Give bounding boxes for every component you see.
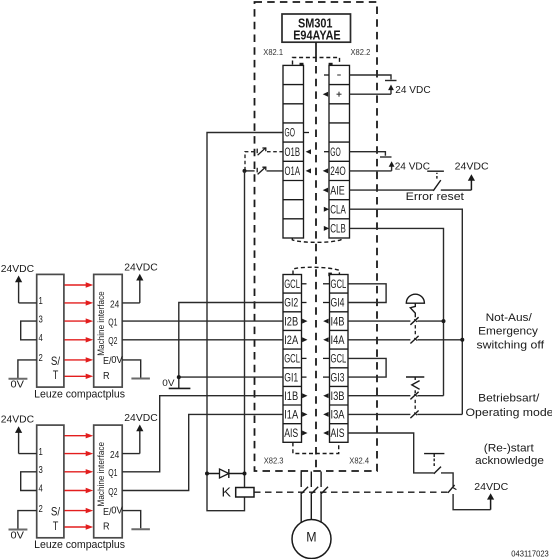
svg-text:GI4: GI4 <box>331 298 345 310</box>
svg-text:GCL: GCL <box>331 354 347 366</box>
svg-text:24VDC: 24VDC <box>455 161 489 173</box>
svg-text:GI2: GI2 <box>284 298 298 310</box>
svg-text:acknowledge: acknowledge <box>475 455 544 467</box>
Leuze unit 1 machine interface box <box>94 274 123 387</box>
svg-text:Error reset: Error reset <box>406 191 465 203</box>
direction tick X82.3 GCL row5 <box>302 357 307 359</box>
ground pin2 unit2 <box>9 529 28 531</box>
direction arrow X82.2 plus <box>323 92 328 97</box>
svg-text:1: 1 <box>39 446 43 458</box>
terminal strip X82.1 <box>283 65 304 238</box>
svg-text:T: T <box>53 519 59 533</box>
svg-text:GCL: GCL <box>284 279 300 291</box>
svg-text:24: 24 <box>110 449 119 461</box>
junction CLB-I4B <box>442 319 446 323</box>
svg-text:I1B: I1B <box>284 391 298 403</box>
direction tick X82.1 GO <box>304 132 310 134</box>
wire pin3-pin4 link unit1 <box>21 321 37 340</box>
arrow 24VDC unit1 right <box>136 274 143 303</box>
svg-text:Q1: Q1 <box>108 317 117 329</box>
direction arrow X82.2 AIE <box>323 188 328 193</box>
junction CLA-I4A <box>460 338 464 342</box>
svg-text:4: 4 <box>39 332 43 344</box>
svg-text:CLB: CLB <box>330 224 346 236</box>
terminal strip X82.3 <box>283 275 302 443</box>
red links unit2 <box>65 436 88 527</box>
direction arrow X82.2 CLB <box>324 226 329 231</box>
direction arrow X82.3 AIS <box>302 431 307 436</box>
ground 0V pin unit2 <box>131 528 150 530</box>
contact O1B dashed wire <box>267 151 284 153</box>
svg-text:24VDC: 24VDC <box>1 263 35 275</box>
svg-text:24 VDC: 24 VDC <box>395 161 431 173</box>
svg-text:3: 3 <box>39 313 43 325</box>
svg-text:GI3: GI3 <box>331 372 345 384</box>
mode switch actuator <box>406 377 424 394</box>
svg-text:24: 24 <box>110 298 119 310</box>
linkage K dashed <box>254 491 448 493</box>
red links unit1 <box>65 285 88 376</box>
junction 0V <box>177 375 181 379</box>
wire minus termination <box>350 75 392 80</box>
X82.2 pin plus <box>337 92 342 97</box>
svg-text:0V: 0V <box>111 355 123 366</box>
svg-text:3: 3 <box>39 464 43 476</box>
Leuze unit 1 sensor box S/T <box>37 274 64 387</box>
svg-text:24VDC: 24VDC <box>124 261 158 273</box>
svg-text:I3B: I3B <box>331 391 345 403</box>
svg-text:Not-Aus/: Not-Aus/ <box>486 312 533 324</box>
wire pin24 unit2 <box>122 453 140 455</box>
svg-text:GCL: GCL <box>284 354 300 366</box>
direction arrow X82.3 I2A <box>302 337 307 342</box>
svg-text:0V: 0V <box>162 378 175 389</box>
contact I3A wire <box>348 413 462 415</box>
module SM301 outer dashed boundary <box>255 2 378 471</box>
svg-text:GO: GO <box>330 147 341 159</box>
arrow 24VDC at 24O <box>389 161 395 171</box>
svg-text:O1A: O1A <box>285 166 301 178</box>
svg-text:R: R <box>103 521 110 533</box>
svg-text:R: R <box>103 370 110 382</box>
svg-text:24O: 24O <box>330 166 346 178</box>
direction tick X82.4 GCL row1 <box>323 283 330 285</box>
wire Q1 unit2 to I1B <box>122 396 283 472</box>
svg-text:CLA: CLA <box>330 204 346 216</box>
wire AIS acknowledge <box>348 433 434 473</box>
direction arrow X82.3 I1A <box>302 412 307 417</box>
arrow 24VDC acknowledge <box>487 493 494 510</box>
svg-text:Machine interface: Machine interface <box>96 291 106 356</box>
relay coil K <box>236 488 254 498</box>
svg-text:GCL: GCL <box>331 279 347 291</box>
svg-text:Emergency: Emergency <box>478 326 538 338</box>
svg-text:2: 2 <box>39 352 43 364</box>
wire to 24VDC acknowledge <box>453 494 491 510</box>
svg-text:X82.2: X82.2 <box>351 47 371 57</box>
contact I3B blade <box>410 392 418 400</box>
stem from label box <box>315 42 317 62</box>
ground 0V node <box>169 387 191 389</box>
Leuze unit 2 sensor box S/T <box>37 425 64 538</box>
wire GCL-GI3 loop <box>348 358 386 377</box>
svg-text:X82.1: X82.1 <box>263 47 283 57</box>
arrow 24VDC unit2 left <box>15 426 22 453</box>
svg-text:AIE: AIE <box>330 185 345 197</box>
svg-text:S/: S/ <box>51 354 61 368</box>
direction arrow X82.3 I1B <box>302 393 307 398</box>
svg-text:S/: S/ <box>51 505 61 519</box>
direction tick X82.3 GI2 row2 <box>302 302 307 304</box>
corner mark X82.1 <box>300 63 304 67</box>
wire AIE error reset <box>350 189 434 191</box>
direction tick X82.3 GCL row1 <box>302 283 307 285</box>
svg-text:I2A: I2A <box>284 335 298 347</box>
terminal strip X82.4 <box>330 275 349 443</box>
wire pin24 unit1 <box>122 302 140 304</box>
wire pin1 unit1 <box>19 302 37 304</box>
svg-text:X82.4: X82.4 <box>349 455 369 465</box>
svg-text:24VDC: 24VDC <box>124 412 158 424</box>
svg-text:T: T <box>53 368 59 382</box>
svg-text:24 VDC: 24 VDC <box>395 84 431 96</box>
dashed plug bracket above X82.1/X82.2 <box>293 58 340 65</box>
pushbutton restart contact <box>434 467 441 474</box>
wire 24O to 24VDC <box>350 170 392 172</box>
direction tick X82.3 GI1 row6 <box>302 376 307 378</box>
svg-text:X82.3: X82.3 <box>264 455 284 465</box>
wire GO termination <box>350 152 386 156</box>
svg-text:043117023: 043117023 <box>511 549 549 559</box>
svg-text:M: M <box>306 529 316 545</box>
svg-text:0V: 0V <box>111 506 123 517</box>
wire Q2 unit1 to I2A <box>122 339 283 341</box>
label box SM301 / E94AYAE <box>282 14 351 43</box>
direction tick X82.4 GCL row5 <box>323 357 330 359</box>
wire GO X82.1 to relay K <box>207 133 283 511</box>
emergency stop button head <box>406 294 424 303</box>
direction tick X82.2 minus <box>324 74 329 76</box>
wire 0V node to GI1 <box>179 376 283 378</box>
svg-text:Leuze compactplus: Leuze compactplus <box>34 389 125 401</box>
wire pin3-pin4 link unit2 <box>21 472 37 491</box>
corner mark X82.4 <box>328 273 332 277</box>
svg-text:AIS: AIS <box>284 428 298 440</box>
contact I4A wire <box>348 339 462 341</box>
svg-text:0V: 0V <box>11 379 24 391</box>
svg-text:AIS: AIS <box>331 428 345 440</box>
svg-text:Q2: Q2 <box>108 335 117 347</box>
wire CLA <box>350 209 463 414</box>
contact I4A blade <box>410 336 418 344</box>
svg-text:I3A: I3A <box>331 410 345 422</box>
direction tick X82.4 GI3 row6 <box>323 376 330 378</box>
direction arrow X82.2 24O <box>323 168 328 173</box>
svg-text:K: K <box>222 484 232 499</box>
direction arrow X82.4 I3A <box>323 412 328 417</box>
svg-text:I4B: I4B <box>331 316 345 328</box>
K feedback contact blade <box>448 485 455 493</box>
direction arrow X82.1 O1B <box>306 149 311 154</box>
wire Q2 unit2 to I1A <box>122 414 283 490</box>
svg-text:Betriebsart/: Betriebsart/ <box>478 393 540 405</box>
svg-text:GI1: GI1 <box>284 372 298 384</box>
wire 0V node to GI2 <box>179 303 283 389</box>
arrow 24VDC unit2 right <box>136 425 143 454</box>
wire pin2 ground unit2 <box>18 511 37 529</box>
motor M <box>292 520 331 559</box>
direction arrow X82.2 CLA <box>324 207 329 212</box>
contact I3B wire <box>348 395 444 397</box>
wire 0V pin unit2 <box>122 511 141 529</box>
direction arrow X82.4 I4A <box>323 337 328 342</box>
svg-text:24VDC: 24VDC <box>1 414 35 426</box>
wire 0V pin unit1 <box>122 360 141 378</box>
contact I4B blade <box>410 317 418 325</box>
svg-text:Q2: Q2 <box>108 486 117 498</box>
diode freewheel <box>207 469 245 478</box>
wire CLB <box>350 228 444 395</box>
phase line 1 contact <box>301 472 309 524</box>
phase line 2 contact <box>311 472 319 524</box>
svg-text:I1A: I1A <box>284 410 298 422</box>
wire plus to 24VDC <box>350 93 392 95</box>
dashed plug bracket below X82.3/X82.4 <box>293 442 339 453</box>
contact O1A symbol <box>257 167 266 175</box>
Leuze unit 2 machine interface box <box>94 425 123 538</box>
wire O1A down to relay <box>244 171 246 488</box>
svg-text:GO: GO <box>285 128 296 140</box>
dashed plug bracket below X82.1/X82.2 <box>292 238 341 242</box>
contact O1B symbol <box>257 148 266 156</box>
wire pin1 unit2 <box>19 453 37 455</box>
direction tick X82.2 GO <box>324 151 329 153</box>
svg-text:O1B: O1B <box>285 147 301 159</box>
wire GCL-GI4 loop <box>348 284 386 303</box>
svg-text:1: 1 <box>39 295 43 307</box>
svg-text:switching off: switching off <box>477 339 545 351</box>
svg-text:2: 2 <box>39 503 43 515</box>
direction arrow X82.4 I4B <box>323 319 328 324</box>
arrow 24VDC unit1 left <box>15 276 22 303</box>
emergency stop plunger <box>410 303 415 317</box>
svg-text:4: 4 <box>39 483 43 495</box>
arrow 24VDC at plus <box>388 85 394 95</box>
phase line 3 contact <box>321 472 329 524</box>
center dashed line of module <box>315 66 317 468</box>
svg-text:Leuze compactplus: Leuze compactplus <box>34 539 125 551</box>
svg-text:24VDC: 24VDC <box>474 481 508 493</box>
svg-text:Machine interface: Machine interface <box>96 442 106 507</box>
corner mark X82.2 <box>329 63 333 67</box>
svg-text:I2B: I2B <box>284 316 298 328</box>
dashed plug bracket above X82.3/X82.4 <box>293 267 339 274</box>
X82.2 pin minus <box>337 74 341 76</box>
pushbutton restart actuator <box>424 454 444 466</box>
wire Q1 unit1 to I2B <box>122 320 283 322</box>
contact I4B wire <box>348 320 444 322</box>
wire O1B to O1A dashed <box>245 152 255 171</box>
ground 0V pin unit1 <box>131 378 150 380</box>
contact I3A blade <box>410 411 418 419</box>
linkage estop dashed <box>414 325 416 336</box>
svg-text:E94AYAE: E94AYAE <box>293 28 341 43</box>
switch error reset <box>427 171 471 191</box>
direction arrow X82.4 AIS <box>323 431 328 436</box>
wire to K feedback contact <box>441 473 453 486</box>
wire O1A to junction <box>245 170 255 172</box>
linkage mode dashed <box>414 400 416 411</box>
svg-text:(Re-)start: (Re-)start <box>484 442 535 454</box>
junction O1A-O1B <box>243 169 247 173</box>
wire pin2 ground unit1 <box>18 360 37 378</box>
ground pin2 unit1 <box>9 378 28 380</box>
junction diode left <box>205 472 209 476</box>
svg-text:Operating mode: Operating mode <box>466 407 552 419</box>
direction arrow X82.3 I2B <box>302 319 307 324</box>
svg-text:I4A: I4A <box>331 335 345 347</box>
contact O1A solid wire <box>267 170 284 172</box>
svg-text:0V: 0V <box>11 529 24 541</box>
direction tick X82.4 GI4 row2 <box>323 302 330 304</box>
arrow 24VDC error reset <box>468 174 475 190</box>
svg-text:Q1: Q1 <box>108 467 117 479</box>
terminal strip X82.2 <box>329 65 350 238</box>
direction arrow X82.4 I3B <box>323 393 328 398</box>
direction arrow X82.1 O1A <box>306 168 311 173</box>
junction diode right <box>243 472 247 476</box>
